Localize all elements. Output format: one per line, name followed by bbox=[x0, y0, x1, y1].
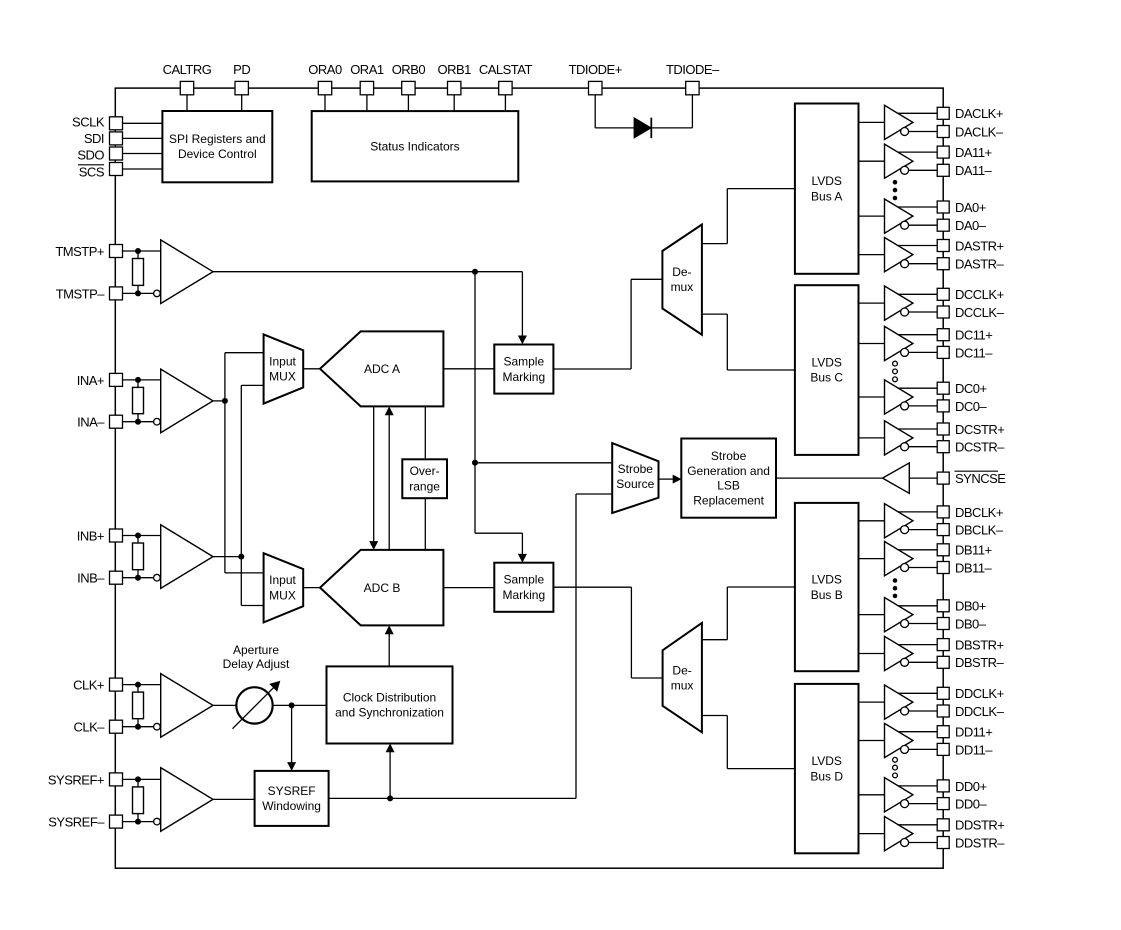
wire SYSREF buffer to SYSREF Windowing bbox=[213, 798, 255, 800]
wire arrow Clock Distribution up to ADC B bbox=[385, 625, 394, 666]
block: Strobe Source bbox=[612, 443, 658, 513]
wire / pin DD11+ (right) bbox=[898, 725, 993, 740]
svg-text:ADC A: ADC A bbox=[364, 362, 400, 376]
svg-text:Marking: Marking bbox=[502, 588, 545, 602]
pin TDIODE+ (top) bbox=[569, 62, 622, 128]
wire / pin DC0+ (right) bbox=[898, 381, 987, 396]
pin ORA1 (top) bbox=[350, 62, 384, 111]
svg-text:Replacement: Replacement bbox=[693, 493, 764, 507]
buffer LVDS output driver (DD11+/DD11–) bbox=[859, 723, 913, 757]
buffer LVDS output driver (DC0+/DC0–) bbox=[859, 380, 913, 414]
wire / pin DDSTR+ (right) bbox=[898, 818, 1005, 833]
buffer LVDS output driver (DDCLK+/DDCLK–) bbox=[859, 685, 913, 719]
wire aperture adjust to Clock Distribution (with junction) bbox=[273, 702, 327, 708]
svg-text:DBSTR–: DBSTR– bbox=[955, 655, 1005, 670]
block: LVDS Bus D bbox=[795, 684, 859, 853]
buffer LVDS output driver (DASTR+/DASTR–) bbox=[859, 238, 913, 272]
block: De-mux (B) bbox=[663, 623, 702, 732]
ellipsis dots (LVDS Bus B lanes) bbox=[893, 578, 898, 598]
svg-text:SPI Registers and: SPI Registers and bbox=[169, 132, 266, 146]
buffer amplifier (CLK+/CLK– differential input) bbox=[154, 674, 213, 738]
buffer amplifier (INB+/INB– differential input) bbox=[154, 525, 213, 589]
svg-text:Input: Input bbox=[269, 573, 296, 587]
svg-text:DACLK–: DACLK– bbox=[955, 124, 1004, 139]
wire / pin DB0– (right, inverted output) bbox=[901, 616, 987, 631]
svg-text:LVDS: LVDS bbox=[811, 573, 841, 587]
svg-text:Clock Distribution: Clock Distribution bbox=[343, 691, 436, 705]
pin SCS (left) bbox=[78, 163, 162, 180]
buffer LVDS output driver (DA11+/DA11–) bbox=[859, 144, 913, 178]
svg-text:Bus D: Bus D bbox=[810, 769, 843, 783]
block: LVDS Bus B bbox=[795, 503, 859, 671]
svg-text:MUX: MUX bbox=[269, 370, 296, 384]
wire / pin DASTR+ (right) bbox=[898, 238, 1004, 253]
wire INB buffer output crossbar (to both Input MUXes) bbox=[213, 385, 264, 605]
pin ORB1 (top) bbox=[437, 62, 471, 111]
svg-text:Sample: Sample bbox=[503, 573, 544, 587]
svg-text:DA11–: DA11– bbox=[955, 163, 993, 178]
svg-text:Strobe: Strobe bbox=[711, 449, 747, 463]
buffer LVDS output driver (DDSTR+/DDSTR–) bbox=[859, 817, 913, 851]
pin CALTRG (top) bbox=[163, 62, 212, 111]
pin ORA0 (top) bbox=[308, 62, 342, 111]
pin ORB0 (top) bbox=[392, 62, 426, 111]
svg-text:DC0+: DC0+ bbox=[955, 381, 987, 396]
buffer LVDS output driver (DD0+/DD0–) bbox=[859, 778, 913, 812]
block: ADC B bbox=[320, 550, 443, 626]
svg-text:Windowing: Windowing bbox=[262, 799, 321, 813]
block: SYSREF Windowing bbox=[255, 771, 329, 826]
svg-text:SYNCSE: SYNCSE bbox=[955, 471, 1006, 486]
ellipsis dots (LVDS Bus A lanes) bbox=[893, 180, 898, 200]
svg-text:SDO: SDO bbox=[77, 148, 104, 163]
wire / pin DBCLK– (right, inverted output) bbox=[901, 523, 1004, 538]
wire De-mux B to LVDS Bus B bbox=[702, 587, 795, 640]
pin SDO (left) bbox=[77, 147, 162, 163]
wire / pin DA11+ (right) bbox=[898, 145, 992, 160]
svg-text:SDI: SDI bbox=[84, 131, 104, 146]
svg-text:LSB: LSB bbox=[717, 479, 740, 493]
resistor (termination across CLK+/CLK–) bbox=[133, 682, 144, 730]
wire SYSREF branch up to Strobe Source bbox=[576, 494, 612, 798]
block: Sample Marking (A) bbox=[494, 345, 553, 394]
svg-text:LVDS: LVDS bbox=[811, 356, 841, 370]
buffer LVDS output driver (DB11+/DB11–) bbox=[859, 542, 913, 576]
svg-text:DD11+: DD11+ bbox=[955, 725, 992, 740]
wire / pin DBSTR– (right, inverted output) bbox=[901, 655, 1005, 670]
pin SCLK (left) bbox=[72, 115, 162, 130]
block: LVDS Bus C bbox=[795, 285, 859, 455]
wire ADC A output to Sample Marking A bbox=[443, 368, 494, 370]
svg-text:DA0–: DA0– bbox=[955, 218, 987, 233]
svg-text:Device Control: Device Control bbox=[178, 147, 257, 161]
wire SYSREF Windowing output (with junction) bbox=[329, 795, 576, 801]
svg-text:ORB0: ORB0 bbox=[392, 62, 426, 77]
svg-text:Bus C: Bus C bbox=[810, 371, 843, 385]
svg-text:CALSTAT: CALSTAT bbox=[479, 62, 533, 77]
svg-text:ORA1: ORA1 bbox=[350, 62, 384, 77]
svg-text:LVDS: LVDS bbox=[811, 174, 841, 188]
block: Input MUX B bbox=[264, 553, 304, 622]
buffer LVDS output driver (DB0+/DB0–) bbox=[859, 598, 913, 632]
svg-text:DCSTR–: DCSTR– bbox=[955, 440, 1005, 455]
wire arrow junction up to Clock Distribution bbox=[386, 744, 395, 799]
resistor (termination across INB+/INB–) bbox=[133, 533, 144, 581]
block: LVDS Bus A bbox=[795, 104, 859, 274]
svg-text:ORA0: ORA0 bbox=[308, 62, 342, 77]
svg-text:TMSTP+: TMSTP+ bbox=[55, 244, 104, 259]
wire / pin DDCLK+ (right) bbox=[898, 686, 1004, 701]
svg-text:TDIODE–: TDIODE– bbox=[666, 62, 720, 77]
block: De-mux (A) bbox=[662, 225, 702, 335]
svg-text:mux: mux bbox=[671, 280, 694, 294]
svg-text:DC11–: DC11– bbox=[955, 345, 993, 360]
wire De-mux A to LVDS Bus A bbox=[702, 189, 795, 244]
wire Input MUX B to ADC B bbox=[303, 587, 320, 589]
ellipsis dots (LVDS Bus C lanes) bbox=[893, 361, 898, 381]
diode D1 (thermal diode TDIODE) bbox=[595, 118, 692, 138]
block: Over-range bbox=[402, 459, 447, 498]
wire / pin DACLK– (right, inverted output) bbox=[901, 124, 1004, 139]
pin CALSTAT (top) bbox=[479, 62, 533, 111]
buffer LVDS output driver (DA0+/DA0–) bbox=[859, 199, 913, 233]
wire / pin DC0– (right, inverted output) bbox=[901, 399, 988, 414]
wire / pin DA0+ (right) bbox=[898, 200, 986, 215]
svg-text:INB+: INB+ bbox=[77, 528, 104, 543]
svg-text:DD11–: DD11– bbox=[955, 742, 993, 757]
wire CLK buffer to aperture adjust bbox=[213, 704, 237, 706]
pin SYSREF+ (left) bbox=[48, 772, 161, 787]
wire Input MUX A to ADC A bbox=[303, 368, 320, 370]
svg-text:DB11–: DB11– bbox=[955, 560, 993, 575]
svg-text:DBSTR+: DBSTR+ bbox=[955, 638, 1004, 653]
svg-text:Strobe: Strobe bbox=[618, 462, 654, 476]
svg-text:SYSREF–: SYSREF– bbox=[48, 815, 105, 830]
wire / pin DA0– (right, inverted output) bbox=[901, 218, 987, 233]
svg-text:DDSTR–: DDSTR– bbox=[955, 835, 1005, 850]
svg-text:DB11+: DB11+ bbox=[955, 543, 992, 558]
svg-text:SCS: SCS bbox=[79, 164, 105, 179]
buffer amplifier (INA+/INA– differential input) bbox=[154, 369, 213, 433]
buffer SYNCSE (output driver, points left) bbox=[883, 463, 910, 493]
pin TDIODE− (top) bbox=[666, 62, 720, 128]
svg-text:DBCLK+: DBCLK+ bbox=[955, 505, 1003, 520]
resistor (termination across SYSREF+/SYSREF–) bbox=[133, 776, 144, 824]
svg-text:Sample: Sample bbox=[503, 354, 544, 368]
pin TMSTP– (left) bbox=[56, 286, 154, 301]
wire / pin DC11– (right, inverted output) bbox=[901, 345, 994, 360]
block: ADC A bbox=[320, 331, 443, 406]
wire INA buffer output crossbar (to both Input MUXes) bbox=[213, 353, 264, 573]
svg-text:DCSTR+: DCSTR+ bbox=[955, 422, 1004, 437]
svg-text:DC11+: DC11+ bbox=[955, 328, 992, 343]
ellipsis dots (LVDS Bus D lanes) bbox=[893, 757, 898, 777]
svg-text:Bus A: Bus A bbox=[811, 189, 842, 203]
svg-text:Over-: Over- bbox=[410, 464, 440, 478]
wire De-mux B to LVDS Bus D bbox=[702, 716, 795, 769]
pin SDI (left) bbox=[84, 131, 163, 146]
wire / pin DD0– (right, inverted output) bbox=[901, 797, 988, 812]
svg-text:Bus B: Bus B bbox=[811, 588, 843, 602]
wire / pin DDSTR– (right, inverted output) bbox=[901, 835, 1006, 850]
svg-text:TDIODE+: TDIODE+ bbox=[569, 62, 622, 77]
svg-text:DB0+: DB0+ bbox=[955, 599, 986, 614]
svg-text:DA11+: DA11+ bbox=[955, 145, 992, 160]
svg-text:INA–: INA– bbox=[77, 415, 105, 430]
svg-text:and Synchronization: and Synchronization bbox=[335, 706, 444, 720]
pin INB– (left) bbox=[77, 571, 153, 586]
svg-text:Source: Source bbox=[616, 477, 654, 491]
wire / pin DASTR– (right, inverted output) bbox=[901, 257, 1005, 272]
buffer LVDS output driver (DCCLK+/DCCLK–) bbox=[859, 286, 913, 320]
block: Sample Marking (B) bbox=[494, 563, 553, 612]
wire / pin DB0+ (right) bbox=[898, 599, 986, 614]
wire Strobe Generation to SYNCSE buffer bbox=[776, 477, 883, 479]
wire / pin DA11– (right, inverted output) bbox=[901, 163, 993, 178]
wire / pin DBCLK+ (right) bbox=[898, 505, 1003, 520]
svg-text:LVDS: LVDS bbox=[811, 754, 841, 768]
wire arrow ADC A down to ADC B bbox=[369, 406, 378, 550]
block: Input MUX A bbox=[264, 334, 304, 403]
svg-text:DA0+: DA0+ bbox=[955, 200, 986, 215]
svg-text:DASTR+: DASTR+ bbox=[955, 238, 1004, 253]
svg-text:Generation and: Generation and bbox=[687, 464, 770, 478]
svg-text:SYSREF+: SYSREF+ bbox=[48, 772, 104, 787]
wire timestamp branch down to Strobe Source bbox=[472, 272, 612, 534]
svg-text:DD0+: DD0+ bbox=[955, 779, 987, 794]
wire TMSTP buffer output to Sample Marking A (with junction) bbox=[213, 269, 522, 275]
svg-text:DDCLK–: DDCLK– bbox=[955, 704, 1005, 719]
svg-text:ADC B: ADC B bbox=[364, 581, 401, 595]
pin PD (top) bbox=[233, 62, 250, 111]
wire Over-range to ADC B bbox=[424, 498, 426, 550]
svg-text:DDCLK+: DDCLK+ bbox=[955, 686, 1004, 701]
buffer LVDS output driver (DACLK+/DACLK–) bbox=[859, 105, 913, 139]
svg-text:mux: mux bbox=[671, 679, 694, 693]
wire arrow ADC B up to ADC A bbox=[385, 406, 394, 550]
pin INA+ (left) bbox=[77, 373, 161, 388]
wire arrow into Sample Marking A top bbox=[518, 272, 527, 345]
wire SYNCSE buffer to pin bbox=[909, 477, 937, 479]
svg-text:Status Indicators: Status Indicators bbox=[370, 139, 459, 153]
buffer LVDS output driver (DC11+/DC11–) bbox=[859, 326, 913, 360]
block: Clock Distribution and Synchronization bbox=[327, 666, 453, 743]
wire ADC B output to Sample Marking B bbox=[443, 587, 494, 589]
buffer amplifier (TMSTP+/TMSTP– differential input) bbox=[154, 240, 213, 304]
svg-text:INB–: INB– bbox=[77, 571, 105, 586]
wire / pin DB11– (right, inverted output) bbox=[901, 560, 993, 575]
svg-text:INA+: INA+ bbox=[77, 373, 104, 388]
svg-text:Marking: Marking bbox=[502, 370, 545, 384]
svg-text:DASTR–: DASTR– bbox=[955, 257, 1005, 272]
wire / pin DD0+ (right) bbox=[898, 779, 987, 794]
label: Aperture Delay Adjust bbox=[223, 643, 290, 671]
svg-text:De-: De- bbox=[672, 265, 691, 279]
wire arrow into Sample Marking B top bbox=[475, 533, 527, 563]
buffer amplifier (SYSREF+/SYSREF– differential input) bbox=[154, 768, 213, 832]
svg-text:CLK–: CLK– bbox=[73, 720, 105, 735]
wire / pin DBSTR+ (right) bbox=[898, 638, 1004, 653]
wire / pin DD11– (right, inverted output) bbox=[901, 742, 994, 757]
block: Status Indicators bbox=[312, 111, 519, 181]
wire ADC A to Over-range bbox=[424, 406, 426, 459]
buffer LVDS output driver (DBSTR+/DBSTR–) bbox=[859, 636, 913, 670]
wire / pin DCCLK+ (right) bbox=[898, 287, 1004, 302]
block: SPI Registers and Device Control bbox=[162, 111, 272, 182]
svg-text:DCCLK–: DCCLK– bbox=[955, 305, 1005, 320]
svg-text:CLK+: CLK+ bbox=[73, 678, 104, 693]
pin SYSREF– (left) bbox=[48, 815, 153, 830]
wire / pin DC11+ (right) bbox=[898, 328, 993, 343]
svg-text:ORB1: ORB1 bbox=[437, 62, 471, 77]
pin SYNCSE (right, active low) bbox=[937, 471, 1006, 486]
svg-text:TMSTP–: TMSTP– bbox=[56, 286, 106, 301]
wire / pin DACLK+ (right) bbox=[898, 106, 1003, 121]
svg-text:Delay Adjust: Delay Adjust bbox=[223, 657, 290, 671]
svg-text:range: range bbox=[409, 479, 440, 493]
svg-text:DD0–: DD0– bbox=[955, 797, 988, 812]
svg-text:DC0–: DC0– bbox=[955, 399, 988, 414]
chip outline (device boundary) bbox=[115, 88, 943, 868]
wire / pin DCSTR+ (right) bbox=[898, 422, 1005, 437]
pin CLK– (left) bbox=[73, 720, 153, 735]
svg-text:MUX: MUX bbox=[269, 588, 296, 602]
svg-text:CALTRG: CALTRG bbox=[163, 62, 212, 77]
svg-text:DB0–: DB0– bbox=[955, 616, 987, 631]
wire / pin DCSTR– (right, inverted output) bbox=[901, 440, 1006, 455]
wire arrow Strobe Source to Strobe Generation bbox=[659, 475, 682, 484]
wire De-mux A to LVDS Bus C bbox=[702, 314, 795, 370]
block: Strobe Generation and LSB Replacement bbox=[681, 439, 776, 518]
svg-text:Aperture: Aperture bbox=[233, 643, 279, 657]
resistor (termination across TMSTP+/TMSTP–) bbox=[133, 248, 144, 296]
wire Sample Marking B to De-mux B bbox=[553, 587, 662, 678]
wire / pin DCCLK– (right, inverted output) bbox=[901, 305, 1005, 320]
wire arrow junction down to SYSREF Windowing bbox=[287, 705, 296, 771]
wire / pin DB11+ (right) bbox=[898, 543, 992, 558]
svg-text:Input: Input bbox=[269, 354, 296, 368]
svg-text:DDSTR+: DDSTR+ bbox=[955, 818, 1004, 833]
pin INA– (left) bbox=[77, 415, 153, 430]
pin TMSTP+ (left) bbox=[55, 244, 160, 259]
svg-text:PD: PD bbox=[233, 62, 250, 77]
svg-text:SYSREF: SYSREF bbox=[268, 784, 316, 798]
buffer LVDS output driver (DCSTR+/DCSTR–) bbox=[859, 421, 913, 455]
buffer LVDS output driver (DBCLK+/DBCLK–) bbox=[859, 504, 913, 538]
svg-text:DCCLK+: DCCLK+ bbox=[955, 287, 1004, 302]
wire Sample Marking A to De-mux A bbox=[553, 279, 662, 369]
resistor (termination across INA+/INA–) bbox=[133, 377, 144, 425]
variable aperture delay adjust (circle with arrow) bbox=[233, 681, 281, 729]
pin CLK+ (left) bbox=[73, 678, 161, 693]
pin INB+ (left) bbox=[77, 528, 161, 543]
svg-text:SCLK: SCLK bbox=[72, 115, 105, 130]
svg-text:DBCLK–: DBCLK– bbox=[955, 523, 1004, 538]
svg-text:De-: De- bbox=[672, 664, 691, 678]
svg-text:DACLK+: DACLK+ bbox=[955, 106, 1003, 121]
wire / pin DDCLK– (right, inverted output) bbox=[901, 704, 1005, 719]
